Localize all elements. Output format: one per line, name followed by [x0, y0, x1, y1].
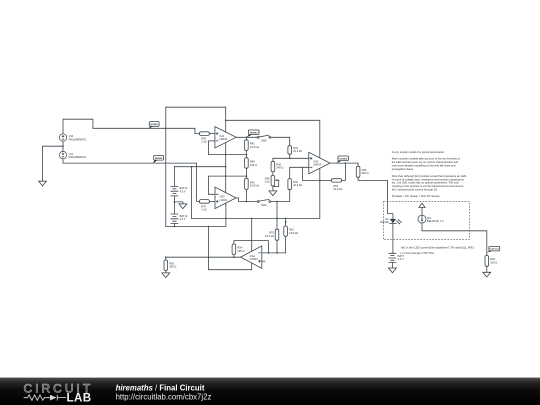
- resistor R41: [245, 140, 259, 151]
- wire R46 bottom to ground: [272, 186, 274, 191]
- resistor R47: [199, 200, 209, 212]
- svg-text:24.9 kΩ: 24.9 kΩ: [293, 183, 302, 187]
- resistor R53: [331, 179, 342, 191]
- wire OA4 plus stub: [262, 260, 265, 262]
- junction R41/R48/fb1: [246, 154, 248, 156]
- svg-text:the LED optical power o/p vs c: the LED optical power o/p vs current cha…: [392, 160, 459, 164]
- battery BAT7: [389, 253, 405, 262]
- wire R48 top stub: [245, 155, 247, 158]
- wire OA3 + node run: [273, 157, 309, 159]
- resistor R50: [164, 260, 176, 271]
- current source Idr1: [418, 215, 444, 223]
- wire OA3 - down leg: [302, 167, 304, 180]
- junction fb1 power cross: [225, 154, 226, 155]
- svg-text:SW4: SW4: [261, 203, 267, 207]
- svg-text:24.9 kΩ: 24.9 kΩ: [293, 149, 302, 153]
- wire R54 top loop: [234, 241, 269, 253]
- wire branch to ground left: [43, 146, 64, 181]
- wire R54 bottom: [233, 255, 235, 258]
- wire OA4 output run: [166, 256, 241, 258]
- wire top right run: [226, 119, 320, 121]
- svg-text:4.0 V: 4.0 V: [398, 257, 404, 261]
- junction R42 bottom: [246, 201, 248, 203]
- junction R48/R42/fb2: [246, 175, 248, 177]
- op-amp OA3: [309, 152, 330, 174]
- up arrow flag: [419, 203, 425, 207]
- junction bus R51: [276, 218, 278, 220]
- svg-text:LAB: LAB: [67, 391, 92, 404]
- svg-text:24.9 kΩ: 24.9 kΩ: [250, 145, 259, 149]
- wire OA2 output step: [236, 198, 257, 202]
- wire R50 bottom: [165, 271, 167, 273]
- svg-text:in terms of voltage drop, resi: in terms of voltage drop, resistance and…: [392, 177, 465, 181]
- svg-text:249 Ω: 249 Ω: [250, 163, 257, 167]
- svg-text:hiremaths / Final Circuit: hiremaths / Final Circuit: [116, 383, 205, 392]
- wire R46 wiper loop: [273, 180, 279, 186]
- svg-text:propagation delay.: propagation delay.: [392, 167, 414, 171]
- wire R40 to OA1 +: [209, 133, 215, 135]
- svg-text:SW3: SW3: [261, 139, 267, 143]
- wire R50 top: [165, 257, 167, 260]
- svg-text:etc., the LED model has no opt: etc., the LED model has no optical param…: [392, 181, 460, 185]
- svg-text:4.0 V: 4.0 V: [180, 217, 186, 221]
- svg-text:4.0 V: 4.0 V: [180, 189, 186, 193]
- svg-text:NODE2: NODE2: [155, 158, 163, 160]
- svg-text:100 Ω: 100 Ω: [490, 260, 497, 264]
- svg-text:LM324: LM324: [250, 257, 258, 261]
- arrow R52: [285, 222, 287, 224]
- flag NODE3: [247, 130, 260, 137]
- svg-text:390 Ω: 390 Ω: [169, 265, 176, 269]
- svg-text:LM324: LM324: [219, 137, 227, 141]
- resistor R44: [288, 179, 302, 190]
- op-amp OA1: [215, 127, 236, 148]
- junction minus R54: [268, 252, 270, 254]
- ground GND-R26: [483, 272, 491, 277]
- wire R47 to OA2 +: [210, 200, 215, 202]
- svg-text:More complex models take accou: More complex models take account of the …: [392, 157, 460, 161]
- wire R42 bottom: [245, 190, 247, 202]
- junction R54 bottom: [233, 256, 235, 258]
- svg-text:249 Ω: 249 Ω: [276, 166, 283, 170]
- wire OA1/OA2 power vertical: [225, 107, 227, 204]
- svg-text:NODE4: NODE4: [339, 157, 347, 160]
- wire OA3 fb left: [303, 179, 332, 181]
- flag NODE2: [153, 155, 164, 163]
- flag NODE4: [337, 156, 349, 163]
- svg-text:24.9 kΩ: 24.9 kΩ: [333, 187, 342, 191]
- junction fb2 power cross: [225, 175, 226, 176]
- resistor R54: [232, 244, 244, 255]
- svg-text:Note that, although D2 provide: Note that, although D2 provides a load t…: [392, 174, 467, 178]
- junction OA4 out left corner: [165, 256, 167, 258]
- svg-text:1 kΩ: 1 kΩ: [201, 140, 206, 144]
- resistor R26: [485, 256, 497, 267]
- svg-text:Simulate > DC Sweep > Run DC S: Simulate > DC Sweep > Run DC Sweep: [392, 194, 440, 198]
- logo zigzag resistor and diode: [24, 395, 50, 400]
- wire R48 bottom: [245, 168, 247, 178]
- wire R41 bottom to fb: [245, 151, 247, 155]
- wire OA2 feedback: [208, 176, 246, 194]
- svg-text:PWL(REPEAT): PWL(REPEAT): [69, 155, 87, 159]
- wire R49 to LED: [358, 177, 393, 219]
- wire BAT7 to ground: [391, 262, 393, 268]
- wire R44 top to OA3 -: [290, 167, 309, 178]
- junction OA3 out: [345, 162, 347, 164]
- wire R52 top with arrow: [285, 218, 287, 226]
- wire battery box left vertical: [191, 167, 193, 219]
- wire R26 to ground: [486, 266, 488, 272]
- wire R43 bottom to OA3 + node: [289, 154, 291, 158]
- switch SW3: [257, 135, 270, 142]
- svg-text:390 Ω: 390 Ω: [237, 249, 244, 253]
- resistor R48: [245, 158, 257, 169]
- battery BAT11: [171, 186, 188, 196]
- battery BAT12: [171, 214, 188, 224]
- svg-text:NODE3: NODE3: [250, 132, 258, 134]
- voltage source V10: [59, 134, 86, 142]
- svg-text:PWL(REPEAT): PWL(REPEAT): [69, 137, 87, 141]
- wire V10 minus to V11 plus: [62, 141, 64, 151]
- wire node1 to R40: [93, 128, 199, 133]
- flag Collector: [487, 246, 500, 252]
- wire OA4 bottom power loop: [208, 226, 251, 269]
- ground GND-left: [39, 181, 47, 186]
- svg-text:Collector: Collector: [490, 248, 500, 251]
- svg-text:NODE1: NODE1: [150, 124, 158, 126]
- svg-text:24.9 kΩ: 24.9 kΩ: [289, 231, 298, 235]
- wire LED cathode to BAT7: [392, 224, 394, 254]
- wire OA3 output: [330, 162, 358, 164]
- junction R43/R44 node: [289, 158, 291, 160]
- resistor R49: [356, 166, 368, 177]
- junction R51 top on SW4 line: [276, 201, 278, 203]
- svg-text:A very simple model of a typic: A very simple model of a typical optocou…: [392, 150, 445, 154]
- junction bus OA4top: [251, 218, 253, 220]
- svg-text:LM324: LM324: [313, 163, 321, 167]
- junction OA4 loop h2: [208, 226, 210, 228]
- svg-text:LM324: LM324: [219, 198, 227, 202]
- wire supply bus: [192, 217, 320, 219]
- svg-text:24.9 kΩ: 24.9 kΩ: [250, 184, 259, 188]
- ground GND-R50: [162, 273, 170, 278]
- junction bus R52: [285, 218, 287, 220]
- wire R49 top: [357, 163, 359, 166]
- junction fb rail: [319, 180, 321, 182]
- junction bus OA2vee: [225, 218, 227, 220]
- wire OA4 minus run: [262, 236, 286, 253]
- resistor R42: [245, 178, 259, 189]
- svg-text:Idr1 monitoring the current th: Idr1 monitoring the current through D2.: [392, 187, 439, 191]
- wire Idr1 top with up flag stem: [421, 207, 423, 215]
- wire BAT11 top: [173, 167, 175, 187]
- wire R45 to R46: [272, 172, 274, 176]
- resistor R51: [265, 229, 279, 240]
- junction top right: [225, 120, 227, 122]
- wire OA1 output: [236, 136, 257, 138]
- svg-text:560 Ω: 560 Ω: [362, 171, 369, 175]
- junction bat top rail: [225, 166, 227, 168]
- resistor R43: [288, 146, 302, 155]
- resistor R52: [284, 226, 298, 236]
- wire top rail: [166, 106, 226, 108]
- svg-text:1 kΩ: 1 kΩ: [201, 208, 206, 212]
- wire OA4 top power: [251, 218, 253, 252]
- wire BAT11 to BAT12: [173, 196, 175, 214]
- svg-text:1 kΩ: 1 kΩ: [264, 180, 269, 184]
- svg-text:1N4148: 1N4148: [380, 220, 390, 224]
- wire OA3 fb down: [342, 163, 346, 180]
- op-amp OA2: [215, 187, 236, 208]
- wire SW4 to R44: [271, 190, 290, 202]
- wire battery box top: [174, 166, 225, 168]
- resistor R40: [199, 132, 209, 144]
- wire battery mid to ground: [174, 202, 183, 204]
- junction BAT12 h2: [174, 226, 176, 228]
- ground GND-R46: [269, 191, 277, 196]
- junction minus R51: [276, 252, 278, 254]
- wire V10 top to node1 run: [63, 119, 93, 134]
- rheostat R46: [264, 175, 279, 186]
- resistor R45: [271, 161, 283, 172]
- wire R51 top: [276, 202, 278, 230]
- wire SW3 to R43: [271, 137, 290, 145]
- wire OA1 feedback: [208, 141, 246, 155]
- op-amp OA4 mirrored: [241, 246, 262, 268]
- svg-text:↳ In this example CTR=70%: ↳ In this example CTR=70%: [400, 251, 435, 255]
- junction OA4 loop out: [208, 256, 210, 258]
- LED D2: [380, 217, 402, 224]
- svg-text:24.9 kΩ: 24.9 kΩ: [265, 234, 274, 238]
- junction battery mid: [174, 201, 176, 203]
- svg-text:Idr1 is the (LED current)/(the: Idr1 is the (LED current)/(the datasheet…: [401, 245, 474, 249]
- flag NODE1: [149, 122, 159, 129]
- svg-text:BEHAV(X) 1.0: BEHAV(X) 1.0: [427, 219, 444, 223]
- junction OA1 out / R41: [246, 137, 248, 139]
- wire V11 bottom node2 run: [63, 159, 199, 202]
- junction V10/V11/gnd: [62, 145, 64, 147]
- wire R41 top: [245, 137, 247, 140]
- ground GND-BAT7: [389, 268, 397, 273]
- wire BAT12 bottom: [173, 224, 175, 227]
- svg-text:may have detailed modelling of: may have detailed modelling of rise and …: [392, 164, 456, 168]
- junction bat box tee: [191, 166, 193, 168]
- dashed optocoupler box: [384, 202, 470, 240]
- wire Idr1 bottom to collector: [422, 223, 487, 255]
- ground GND-bat: [179, 204, 187, 209]
- wire R51 bottom: [276, 240, 278, 253]
- svg-text:http://circuitlab.com/cbx7j2z: http://circuitlab.com/cbx7j2z: [116, 393, 212, 402]
- wire left rail: [165, 107, 167, 226]
- voltage source V11: [59, 151, 86, 159]
- switch SW4: [257, 199, 270, 206]
- wire right rail / OA3 power: [319, 120, 321, 218]
- wire h2 line: [166, 204, 226, 226]
- wire R45 top: [272, 158, 274, 161]
